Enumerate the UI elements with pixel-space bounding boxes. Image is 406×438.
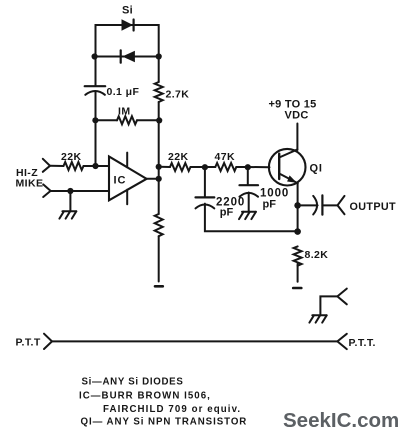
svg-text:P.T.T.: P.T.T.: [349, 337, 376, 349]
resistor R4 22K (horizontal): [159, 163, 205, 171]
svg-text:QI: QI: [310, 162, 323, 174]
wire: left rail capacitor to 1M node: [95, 92, 97, 121]
svg-text:IM: IM: [118, 106, 130, 118]
svg-text:+9 TO 15: +9 TO 15: [269, 98, 317, 110]
wire: supply lead to collector: [296, 124, 298, 151]
wire: left rail down to inverting input: [95, 120, 97, 166]
node: MIKE ground junction: [67, 188, 73, 194]
resistor R2 2.7K (vertical, right rail): [155, 57, 163, 121]
svg-text:47K: 47K: [215, 151, 235, 163]
wire: base lead into transistor: [248, 166, 270, 168]
svg-text:IC—BURR BROWN I506,: IC—BURR BROWN I506,: [79, 390, 211, 401]
capacitor C3 1000 pF: [240, 167, 259, 197]
wire: op-amp output to right rail: [147, 178, 159, 180]
wire: right rail down to output node: [158, 120, 160, 179]
node: right 1M junction: [156, 117, 162, 123]
svg-text:FAIRCHILD 709 or equiv.: FAIRCHILD 709 or equiv.: [103, 404, 241, 415]
node: 2200pF tap: [202, 164, 208, 170]
node: left diode junction: [92, 53, 98, 59]
capacitor C2 2200 pF: [196, 167, 215, 208]
connector: keyline break chevron (right mid): [337, 289, 346, 305]
resistor R1 22K (input, horizontal): [50, 162, 109, 170]
terminal: minus mark below left rail: [155, 285, 163, 288]
node: emitter/output junction: [294, 202, 301, 209]
svg-text:P.T.T: P.T.T: [16, 337, 41, 349]
resistor R6 8.2K (vertical): [294, 246, 302, 281]
wire: 2200pF return to emitter node: [205, 204, 298, 232]
svg-text:0.1 μF: 0.1 μF: [107, 86, 140, 98]
wire: left rail from diode junction to capacitor: [95, 57, 97, 87]
diode D2 (middle branch, pointing left): [121, 50, 135, 62]
wire: P.T.T. line: [52, 340, 337, 342]
label +9 TO 15 VDC: [269, 98, 317, 121]
diode D1 (top branch, pointing right): [122, 19, 134, 31]
wire: MIKE input line: [51, 190, 109, 192]
wire: middle diode branch: [94, 56, 158, 58]
ground: keyline (chassis): [309, 315, 326, 322]
svg-text:VDC: VDC: [285, 110, 309, 122]
node: rail/base-line junction: [156, 164, 162, 170]
resistor R5 47K (horizontal): [205, 163, 248, 171]
svg-text:IC: IC: [114, 175, 127, 187]
svg-text:MIKE: MIKE: [16, 177, 44, 189]
svg-text:2.7K: 2.7K: [166, 89, 190, 101]
resistor R7 (vertical, below op-amp output rail): [155, 179, 163, 282]
ground: below MIKE line (chassis): [59, 191, 76, 219]
node: inverting input junction: [92, 163, 98, 169]
wire: keyline to ground: [320, 296, 337, 314]
wire: emitter down to output node: [297, 183, 299, 231]
connector: left P.T.T. chevron: [44, 334, 52, 349]
svg-text:SeekIC.com: SeekIC.com: [283, 409, 399, 432]
capacitor C4 (output coupling): [313, 195, 322, 214]
wire: cap to output connector: [322, 204, 337, 206]
connector: right P.T.T. chevron: [337, 334, 346, 349]
transistor Q1 (NPN): [269, 149, 306, 186]
label 2200 pF: [216, 196, 245, 218]
terminal: minus mark below 8.2K: [293, 287, 301, 290]
capacitor C1 0.1 uF: [85, 86, 106, 95]
svg-text:pF: pF: [263, 199, 277, 211]
svg-text:8.2K: 8.2K: [305, 249, 329, 261]
node: op-amp output junction: [156, 176, 162, 182]
node: 1000pF tap: [245, 164, 251, 170]
wire: top feedback loop (left rail top + top branch + right rail top): [96, 25, 159, 57]
svg-text:Si—ANY Si DIODES: Si—ANY Si DIODES: [82, 377, 184, 388]
connector: OUTPUT break chevron: [338, 196, 345, 214]
svg-text:Si: Si: [122, 4, 133, 16]
svg-text:pF: pF: [220, 206, 234, 218]
resistor R3 1M (horizontal): [96, 116, 159, 124]
node: emitter/8.2K junction: [294, 228, 301, 235]
node: left 1M junction: [92, 117, 98, 123]
connector: HI-Z input break chevron: [43, 159, 50, 172]
connector: MIKE input break chevron: [43, 184, 50, 197]
node: right diode junction: [156, 53, 162, 59]
svg-text:OUTPUT: OUTPUT: [350, 201, 397, 213]
ground: below 1000pF (chassis): [239, 193, 256, 220]
label 1000 pF: [260, 188, 289, 211]
op-amp U1 IC: [109, 153, 147, 205]
wire: output node to coupling cap: [298, 204, 318, 206]
svg-text:QI— ANY Si NPN TRANSISTOR: QI— ANY Si NPN TRANSISTOR: [81, 417, 248, 428]
